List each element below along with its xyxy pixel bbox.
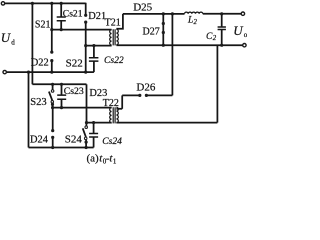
svg-text:D24: D24 (30, 134, 49, 145)
svg-text:T21: T21 (105, 18, 121, 29)
svg-text:U: U (1, 30, 12, 45)
svg-text:S24: S24 (65, 134, 83, 146)
svg-text:d: d (11, 38, 15, 46)
svg-text:D25: D25 (133, 2, 152, 14)
svg-text:2: 2 (213, 35, 217, 42)
svg-text:T22: T22 (103, 98, 119, 109)
svg-text:Cs21: Cs21 (63, 9, 83, 20)
svg-text:S21: S21 (35, 19, 51, 30)
svg-text:D27: D27 (143, 26, 160, 37)
svg-text:Cs24: Cs24 (102, 136, 122, 147)
svg-text:o: o (244, 31, 247, 39)
svg-text:D22: D22 (31, 57, 49, 68)
svg-text:S22: S22 (66, 57, 83, 69)
svg-text:Cs23: Cs23 (64, 86, 84, 97)
svg-text:(a): (a) (87, 153, 100, 165)
svg-text:Cs22: Cs22 (104, 55, 124, 66)
svg-text:1: 1 (113, 158, 117, 166)
svg-text:D26: D26 (136, 82, 155, 94)
svg-text:S23: S23 (30, 97, 47, 108)
svg-text:D21: D21 (88, 11, 106, 22)
svg-text:L: L (187, 15, 193, 26)
svg-text:U: U (233, 23, 244, 38)
svg-text:2: 2 (194, 19, 198, 26)
